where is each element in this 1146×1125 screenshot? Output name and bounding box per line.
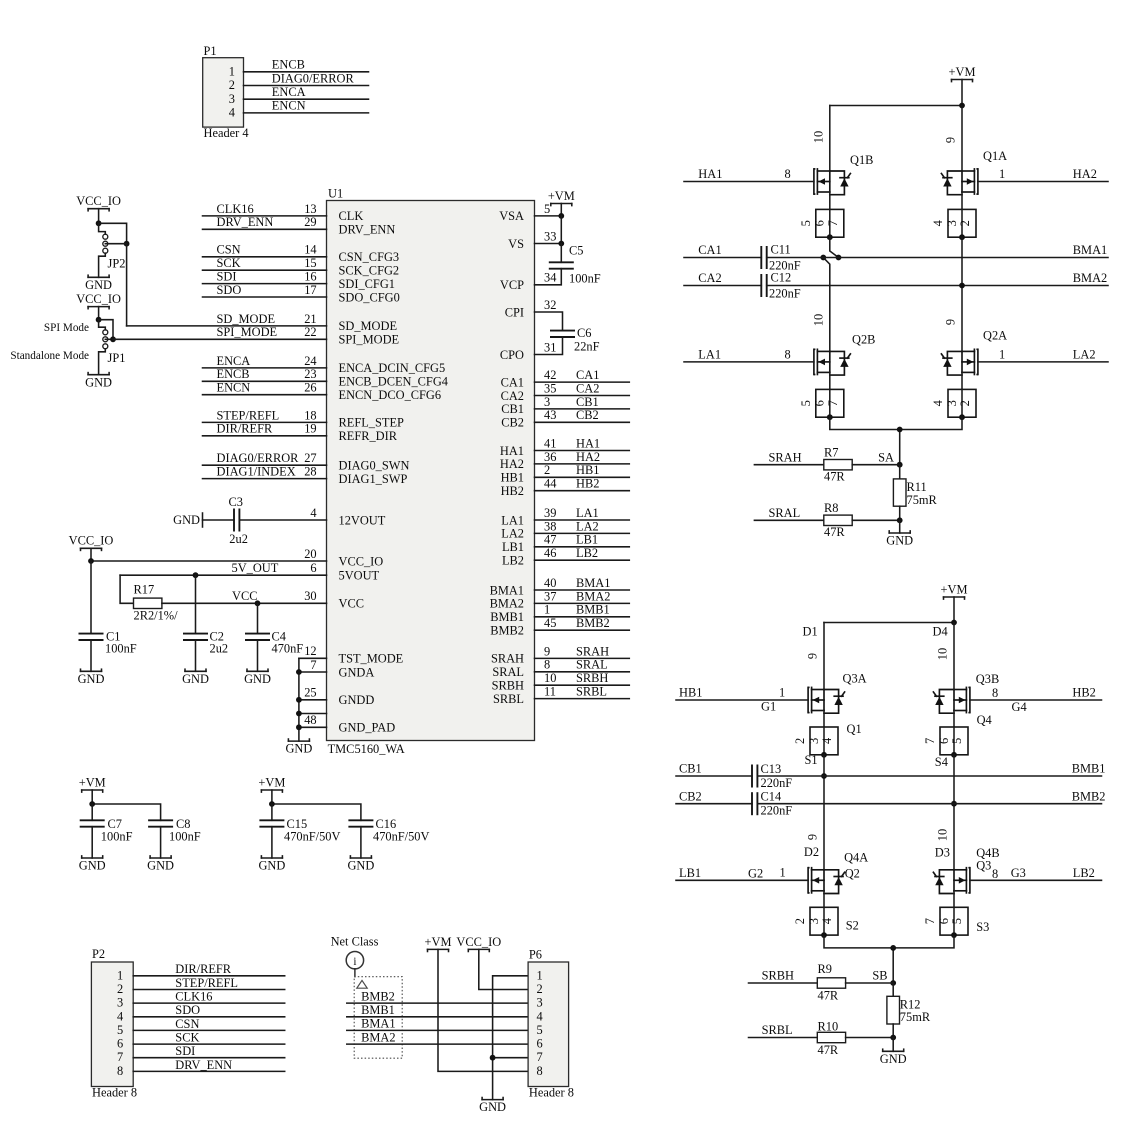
pin 15 SCK_CFG2 / wire SCK [203,256,400,277]
wire VCC_IO to P6 pin2 [479,949,528,989]
wire BMB2 [757,789,1105,803]
pin 4 12VOUT wire [239,506,385,527]
wire STEP/REFL (P2 pin 2) [133,976,285,990]
svg-text:1: 1 [999,348,1005,362]
capacitor C12 220nF [761,271,800,301]
junction SRAL/GND [897,517,903,523]
svg-text:DIAG0_SWN: DIAG0_SWN [339,459,410,473]
svg-text:8: 8 [537,1064,543,1078]
svg-text:Header 8: Header 8 [529,1085,574,1099]
label pin 10 (Q3B drain) [936,648,950,660]
svg-text:1: 1 [544,603,550,617]
svg-text:BMA2: BMA2 [576,589,610,603]
svg-text:D4: D4 [933,625,948,639]
pin 23 ENCB_DCEN_CFG4 / wire ENCB [203,367,448,388]
pins 5/6/7 box (Q2B source) [799,372,844,420]
IC U1 TMC5160_WA [327,187,535,757]
svg-text:26: 26 [304,381,316,395]
svg-text:JP2: JP2 [108,256,126,270]
label D3 [935,845,950,859]
svg-text:GND: GND [182,672,209,686]
pin 21 SD_MODE / wire SD_MODE [127,312,397,333]
svg-text:19: 19 [304,422,316,436]
svg-text:SPI_MODE: SPI_MODE [217,325,278,339]
svg-text:47R: 47R [824,470,845,484]
pin 14 CSN_CFG3 / wire CSN [203,243,400,264]
svg-text:4: 4 [310,506,316,520]
svg-text:GND: GND [85,278,112,292]
svg-text:D3: D3 [935,845,950,859]
svg-text:ENCN: ENCN [217,381,251,395]
svg-text:BMA1: BMA1 [1073,243,1107,257]
svg-text:6: 6 [537,1037,543,1051]
svg-text:8: 8 [785,348,791,362]
svg-text:100nF: 100nF [101,829,133,843]
junction phase A node right [836,255,842,261]
svg-text:5: 5 [950,918,964,924]
svg-text:C3: C3 [229,495,243,509]
wire JP2 pin2 to SD_MODE net [105,244,126,326]
svg-text:220nF: 220nF [769,287,801,301]
power +VM (phase B) [941,582,968,599]
svg-text:R10: R10 [818,1019,839,1033]
wire SRAL [754,506,823,520]
pin 10 SRBH (right) [492,671,630,692]
svg-text:2: 2 [544,463,550,477]
svg-text:46: 46 [544,546,556,560]
svg-text:43: 43 [544,408,556,422]
pin 44 HB2 (right) [501,477,630,498]
svg-text:SA: SA [878,450,894,464]
pin 45 BMB2 (right) [490,616,629,637]
svg-text:GNDA: GNDA [339,665,375,679]
svg-text:100nF: 100nF [105,642,137,656]
resistor R11 75mR [893,465,937,521]
svg-text:SRBH: SRBH [762,969,794,983]
pin 9 SRAH (right) [491,644,629,665]
wire BMB2 (net class to P6) [347,989,528,1003]
ground GND (U1) [285,739,312,756]
resistor R17 2R2/1%/ [134,583,179,623]
svg-text:13: 13 [304,202,316,216]
junction JP1 middle to SPI_MODE [110,336,116,342]
wire DIR/REFR (P2 pin 1) [133,962,285,976]
svg-text:2u2: 2u2 [229,532,248,546]
wire BMB1 [757,762,1105,776]
capacitor C11 220nF [761,243,800,273]
junction at JP2 top [96,220,102,226]
transistor Q2B [814,332,876,375]
svg-text:10: 10 [812,131,826,143]
pin 42 CA1 (right) [501,368,630,389]
label pin 9 (Q3A drain) [806,653,820,659]
svg-text:HB2: HB2 [576,477,599,491]
svg-text:HB1: HB1 [501,471,524,485]
svg-text:Net Class: Net Class [331,935,379,949]
svg-text:5: 5 [117,1023,123,1037]
svg-text:CPO: CPO [500,348,524,362]
wire GND to C3 [203,519,235,521]
pin 48 GND_PAD wire [296,713,395,734]
svg-text:ENCB: ENCB [217,367,250,381]
svg-text:+VM: +VM [79,775,106,789]
svg-text:39: 39 [544,506,556,520]
pin 19 REFR_DIR / wire DIR/REFR [203,422,398,443]
svg-text:470nF/50V: 470nF/50V [373,829,430,843]
wire Q3B source down [953,755,955,870]
svg-text:BMA1: BMA1 [490,583,524,597]
svg-text:ENCA_DCIN_CFG5: ENCA_DCIN_CFG5 [339,361,446,375]
wire +VM to C15/C16 [272,790,361,820]
svg-text:Header 4: Header 4 [204,126,249,140]
svg-text:Q1A: Q1A [983,149,1007,163]
svg-text:LA1: LA1 [698,348,721,362]
pin 13 CLK / wire CLK16 [203,202,364,223]
junction 5V_OUT/C2 [193,572,199,578]
pins 5/6/7 box (Q1B source) [799,192,844,240]
svg-text:16: 16 [304,270,316,284]
svg-text:CA1: CA1 [501,375,524,389]
pin 7 GNDA wire [296,658,374,679]
svg-text:VCC_IO: VCC_IO [76,292,121,306]
svg-text:BMB2: BMB2 [1072,789,1106,803]
svg-text:3: 3 [945,400,959,406]
wire CSN (P2 pin 5) [133,1017,285,1031]
ground GND (JP2) [85,275,112,292]
svg-text:CLK: CLK [339,209,364,223]
svg-text:Q2B: Q2B [852,332,875,346]
svg-text:6: 6 [937,738,951,744]
svg-text:S1: S1 [805,753,818,767]
svg-text:2: 2 [793,738,807,744]
svg-text:LA1: LA1 [576,506,599,520]
power VCC_IO (pin 20) [69,534,114,551]
svg-text:LA2: LA2 [1073,348,1096,362]
capacitor C2 2u2 [183,575,228,671]
resistor R12 75mR [887,983,931,1038]
svg-text:G2: G2 [748,867,763,881]
svg-text:GND: GND [258,859,285,873]
svg-text:10: 10 [544,671,556,685]
ground GND flag (C3) [173,513,202,527]
svg-text:DRV_ENN: DRV_ENN [217,215,274,229]
svg-text:CB1: CB1 [679,762,702,776]
svg-text:REFL_STEP: REFL_STEP [339,416,405,430]
svg-text:VCC_IO: VCC_IO [456,935,501,949]
svg-text:D2: D2 [804,845,819,859]
svg-text:HA1: HA1 [500,444,524,458]
svg-text:SRAH: SRAH [576,644,609,658]
svg-text:8: 8 [785,167,791,181]
junction BMB1/left [821,773,827,779]
svg-text:7: 7 [923,918,937,924]
pins 2/3/4 box (Q4A source) S2 [793,891,859,938]
label SPI Mode [44,322,89,334]
wire jog down to Q2B [823,258,830,352]
wire HB2 gate [970,686,1102,714]
svg-text:5: 5 [799,220,813,226]
pin 16 SDI_CFG1 / wire SDI [203,270,395,291]
svg-text:Q1: Q1 [847,722,862,736]
svg-text:30: 30 [304,589,316,603]
svg-text:SRAL: SRAL [576,658,608,672]
pin 31 CPO (right) [500,340,557,361]
label pin 10 (Q2B drain) [812,314,826,326]
svg-text:2: 2 [229,78,235,92]
svg-text:BMA1: BMA1 [576,576,610,590]
svg-text:VS: VS [508,237,524,251]
label D4 [933,625,948,639]
svg-text:23: 23 [304,367,316,381]
svg-text:HB1: HB1 [576,463,599,477]
svg-text:2R2/1%/: 2R2/1%/ [134,609,179,623]
svg-text:20: 20 [304,547,316,561]
svg-text:GND_PAD: GND_PAD [339,721,396,735]
svg-text:Standalone Mode: Standalone Mode [10,350,89,362]
svg-text:Q4A: Q4A [844,851,868,865]
wire VCC (pin 30) [162,589,364,610]
wire VCC_IO to JP1 [98,307,100,320]
wire CLK16 (P2 pin 3) [133,990,285,1004]
capacitor C16 470nF/50V [348,817,429,858]
svg-text:2: 2 [117,982,123,996]
svg-text:BMA1: BMA1 [361,1017,395,1031]
svg-text:BMB1: BMB1 [576,603,610,617]
svg-text:1: 1 [117,968,123,982]
svg-text:6: 6 [813,220,827,226]
label Standalone Mode [10,350,89,362]
wire SDO (P2 pin 4) [133,1003,285,1017]
svg-text:27: 27 [304,451,316,465]
svg-text:VCC_IO: VCC_IO [76,194,121,208]
svg-text:ENCN: ENCN [272,99,306,113]
svg-text:47R: 47R [824,525,845,539]
svg-text:470nF/50V: 470nF/50V [284,829,341,843]
connector P1 Header 4 [203,44,249,140]
wire VCC_IO pin20 [91,547,383,568]
svg-text:+VM: +VM [425,935,452,949]
svg-text:GND: GND [78,672,105,686]
svg-text:VCC: VCC [339,597,364,611]
svg-text:8: 8 [117,1064,123,1078]
svg-text:1: 1 [779,686,785,700]
svg-text:1: 1 [229,65,235,79]
capacitor C5 100nF [535,244,601,286]
svg-text:10: 10 [936,829,950,841]
svg-text:ENCA: ENCA [272,85,306,99]
svg-text:R8: R8 [824,501,838,515]
wire ENCB (P1 pin 1) [244,58,369,72]
svg-text:3: 3 [537,996,543,1010]
junction SRBL/GND [890,1035,896,1041]
svg-text:C13: C13 [761,762,782,776]
wire VS pin33 [535,216,562,244]
svg-text:C6: C6 [577,326,591,340]
svg-text:9: 9 [944,137,958,143]
svg-text:8: 8 [992,867,998,881]
svg-text:2: 2 [537,982,543,996]
svg-text:SDO: SDO [217,283,242,297]
pin 18 REFL_STEP / wire STEP/REFL [203,408,405,429]
capacitor C6 22nF [535,312,600,355]
svg-text:SPI_MODE: SPI_MODE [339,333,400,347]
svg-text:+VM: +VM [949,65,976,79]
junction VCC/C4 [255,600,261,606]
svg-text:9: 9 [806,834,820,840]
svg-text:LB2: LB2 [1073,866,1095,880]
svg-text:BMB1: BMB1 [490,610,524,624]
connector P2 Header 8 [91,947,137,1099]
wire HA1 gate [684,167,814,181]
ground GND (C4) [244,669,271,686]
pin 36 HA2 (right) [500,450,629,471]
svg-text:6: 6 [937,918,951,924]
svg-text:CLK16: CLK16 [175,990,212,1004]
svg-text:CA2: CA2 [501,389,524,403]
resistor R9 47R [817,962,893,1002]
pin 41 HA1 (right) [500,436,629,457]
svg-text:SRAH: SRAH [491,652,524,666]
wire P6 pin1 to GND chain [493,976,528,1100]
svg-text:LA2: LA2 [501,527,524,541]
wire SRBH [749,969,818,983]
junction BMB2/right [951,801,957,807]
junction VS [558,241,564,247]
svg-text:DIR/REFR: DIR/REFR [175,962,232,976]
wire BMB1 (net class to P6) [347,1003,528,1017]
wire LB1 gate [676,866,808,881]
svg-text:CSN_CFG3: CSN_CFG3 [339,250,400,264]
svg-text:CPI: CPI [505,305,524,319]
svg-text:21: 21 [304,312,316,326]
power VCC_IO (P6) [456,935,501,952]
svg-text:38: 38 [544,519,556,533]
svg-text:VCP: VCP [500,278,524,292]
ground GND (JP1) [85,373,112,390]
svg-text:5: 5 [950,738,964,744]
svg-text:BMB1: BMB1 [361,1003,395,1017]
unnumbered GND pin wire [296,711,327,717]
pins 4/3/2 box (Q2A source) [931,372,976,420]
wire LA1 gate [684,348,814,362]
ground GND (P6) [479,1098,506,1115]
svg-text:37: 37 [544,589,556,603]
svg-text:GND: GND [886,534,913,548]
svg-text:BMB2: BMB2 [490,624,524,638]
pin 35 CA2 (right) [501,381,630,402]
svg-text:DIAG1_SWP: DIAG1_SWP [339,472,408,486]
svg-text:CLK16: CLK16 [217,202,254,216]
transistor Q1B [814,153,874,195]
svg-text:47: 47 [544,533,556,547]
svg-text:STEP/REFL: STEP/REFL [175,976,238,990]
svg-text:LA2: LA2 [576,519,599,533]
svg-text:BMB2: BMB2 [576,616,610,630]
svg-text:47R: 47R [818,1043,839,1057]
svg-text:4: 4 [931,400,945,406]
svg-text:DRV_ENN: DRV_ENN [339,223,396,237]
pin 33 VS (right) [508,229,556,250]
junction C15 [269,801,275,807]
svg-text:5: 5 [799,400,813,406]
svg-text:U1: U1 [328,187,343,201]
svg-text:CSN: CSN [175,1017,199,1031]
junction SA rail [897,427,903,433]
svg-text:P2: P2 [92,947,105,961]
net class directive [331,935,403,1058]
connector P6 Header 8 [528,948,574,1100]
svg-text:VCC: VCC [232,589,257,603]
transistor Q3B [933,672,999,713]
svg-text:25: 25 [304,686,316,700]
svg-text:TST_MODE: TST_MODE [339,652,404,666]
pin 25 GNDD wire [296,686,374,707]
svg-text:1: 1 [780,866,786,880]
svg-text:Q3B: Q3B [976,672,999,686]
svg-text:C14: C14 [761,790,782,804]
capacitor C13 220nF [752,762,792,790]
transistor Q2A [941,328,1007,375]
svg-text:GND: GND [173,513,200,527]
resistor R10 47R [817,1019,893,1057]
svg-text:R7: R7 [824,446,838,460]
svg-text:LB1: LB1 [576,533,598,547]
svg-text:C12: C12 [771,271,792,285]
wire LA2 gate [978,348,1108,362]
svg-text:1: 1 [999,167,1005,181]
svg-text:45: 45 [544,616,556,630]
svg-text:14: 14 [304,243,316,257]
wire Q1B source to phase node SA1 (jog) [830,237,839,257]
svg-text:REFR_DIR: REFR_DIR [339,429,398,443]
wire DRV_ENN (P2 pin 8) [133,1058,285,1072]
svg-text:SB: SB [872,969,887,983]
svg-text:+VM: +VM [941,582,968,596]
wire Q1A drain from +VM [961,106,963,172]
svg-text:GND: GND [347,859,374,873]
svg-text:29: 29 [304,215,316,229]
svg-text:6: 6 [310,561,316,575]
transistor Q1A [941,149,1007,195]
wire source rail to SA [830,417,962,465]
svg-text:HB1: HB1 [679,686,702,700]
pin 8 SRAL (right) [492,658,629,679]
svg-text:2u2: 2u2 [210,642,229,656]
svg-text:SRBL: SRBL [493,692,524,706]
svg-text:S4: S4 [935,755,948,769]
svg-text:7: 7 [310,658,316,672]
label pin 9 (Q4A drain) [806,834,820,840]
capacitor C15 470nF/50V [259,804,340,858]
svg-text:3: 3 [117,996,123,1010]
svg-text:LB1: LB1 [679,866,701,880]
svg-text:220nF: 220nF [761,804,793,818]
wire JP2 top jog [99,223,127,243]
wire Q1A source to Q2A drain [961,237,963,351]
wire Q3B drain [953,623,955,690]
svg-text:12: 12 [304,644,316,658]
wire CA1 left [684,243,761,257]
wire 5V_OUT (pin 6) [120,561,379,604]
svg-text:P1: P1 [204,44,217,58]
svg-text:34: 34 [544,271,556,285]
wire +VM rail (phase B) [824,597,954,690]
svg-text:SRBH: SRBH [576,671,608,685]
svg-text:SDO_CFG0: SDO_CFG0 [339,290,400,304]
svg-text:3: 3 [807,738,821,744]
pin 28 DIAG1_SWP / wire DIAG1/INDEX [203,465,408,486]
pin 1 BMB1 (right) [490,603,629,624]
